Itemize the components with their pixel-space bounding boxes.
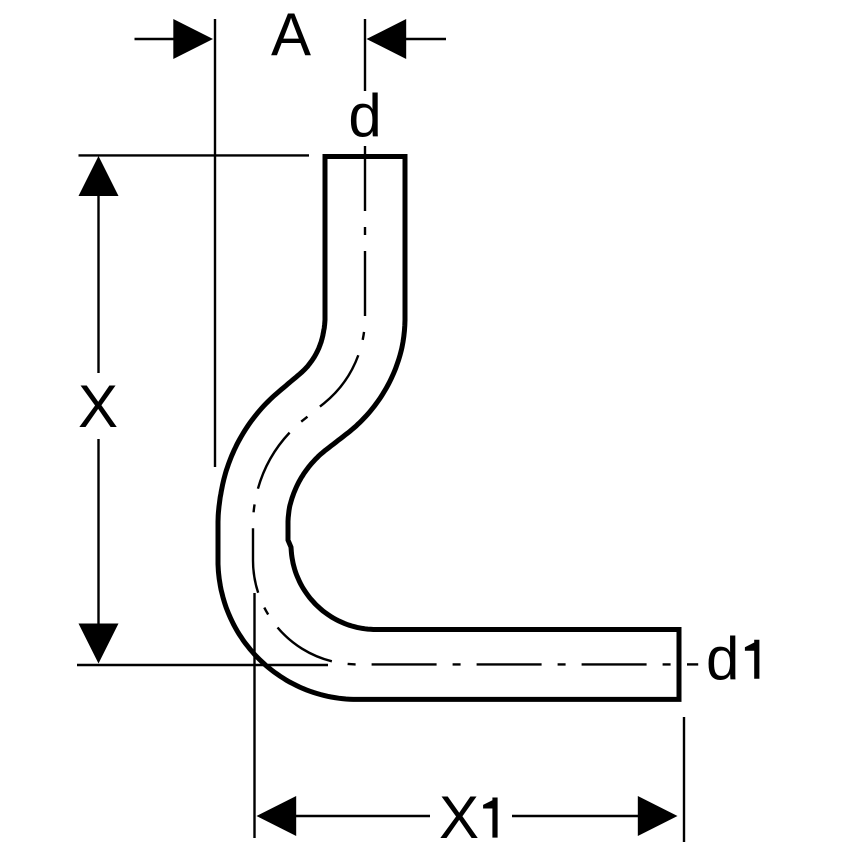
svg-text:d: d	[348, 82, 381, 149]
centerline stub to d1 label	[687, 663, 698, 665]
dimension X : line upper	[97, 190, 99, 373]
dimension X1 : right extension line	[683, 717, 685, 842]
dimension X1 : line left	[293, 815, 430, 817]
centerline extension above pipe (d)	[364, 19, 366, 91]
pipe outline	[218, 157, 679, 700]
label d1 : digit 1	[745, 640, 760, 679]
dimension A : line left	[135, 38, 177, 40]
svg-text:X: X	[78, 373, 118, 440]
dimension X1 : label digit 1	[483, 798, 498, 838]
dimension X : arrowhead up	[79, 156, 119, 196]
dimension X1 : left extension line	[253, 593, 255, 838]
svg-text:A: A	[271, 1, 311, 68]
pipe centerline (dash-dot)	[253, 146, 672, 664]
dimension X : arrowhead down	[79, 624, 119, 664]
dimension X1 : line right	[512, 815, 641, 817]
svg-text:d: d	[706, 625, 739, 692]
dimension A : extension line	[214, 19, 216, 467]
svg-text:X: X	[439, 784, 479, 850]
dimension X : top reference line	[79, 154, 310, 156]
dimension A : arrowhead right-pointing	[173, 19, 213, 59]
dimension A : arrowhead left-pointing	[367, 19, 407, 59]
dimension X : bottom reference line	[77, 664, 328, 666]
dimension X1 : arrowhead left-pointing	[257, 796, 297, 836]
dimension X : line lower	[97, 439, 99, 630]
dimension A : line right	[403, 38, 446, 40]
dimension X1 : arrowhead right-pointing	[638, 796, 678, 836]
